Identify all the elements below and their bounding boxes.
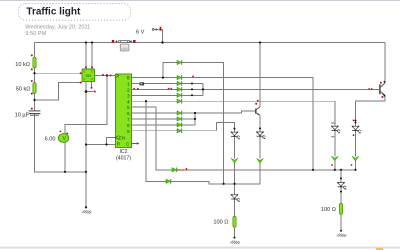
wire IC1 ground vertical: [85, 82, 87, 208]
svg-text:4: 4: [127, 99, 130, 104]
junction D6 merge: [194, 112, 196, 114]
LED L1 symbol (green chain): [256, 131, 265, 139]
bottom scrollbar strip: [0, 246, 400, 247]
wire merge bracket D3-D5: [202, 84, 204, 96]
junction node B (R2-C1): [33, 99, 35, 101]
wire merge bracket D6-D8: [194, 113, 196, 125]
junction LED L4 pin2: [355, 122, 357, 124]
junction meter to ground bus: [64, 171, 66, 173]
junction D5 out: [191, 94, 193, 96]
junction LED L1 pin: [259, 127, 261, 129]
junction pin0 branch: [162, 77, 164, 79]
wire D3 output: [182, 83, 203, 85]
diode D1: [177, 60, 182, 65]
junction D4 out: [191, 88, 193, 90]
svg-text:EN: EN: [119, 135, 126, 140]
wire Q2 collector drop: [259, 43, 261, 108]
wire branch pin0 to D1: [163, 63, 177, 78]
wire chain C2 lamp mid: [234, 199, 236, 216]
LED L2 arrow: [231, 158, 238, 163]
supply arrow 6V: [152, 27, 162, 31]
junction chain C4 upper bus: [354, 169, 356, 171]
scrollbar thumb: [376, 248, 383, 250]
junction D1 bus to lower bus: [223, 183, 225, 185]
junction rail IC1 pin8: [85, 41, 87, 43]
diode D8: [177, 123, 182, 128]
wire IC1 bottom pin stub: [91, 82, 93, 88]
wire D7 output: [182, 118, 195, 120]
wire IC2 R to ground vertical: [86, 144, 116, 146]
wire chain C3 top: [334, 101, 336, 126]
top window hairline: [0, 0, 400, 1]
wire chain C1 bottom: [259, 162, 261, 165]
junction LED L6 pin top: [340, 177, 342, 179]
wire chain C2 mid: [234, 137, 236, 159]
wire meter bottom: [64, 142, 66, 172]
wire rail left drop to R1: [34, 43, 36, 58]
diode D12: [177, 99, 182, 104]
LED L4 arrow: [352, 156, 359, 161]
svg-text:6 V: 6 V: [136, 30, 145, 36]
diode D10: [166, 179, 171, 184]
wire meter branch: [65, 76, 107, 135]
red C pin stub: [132, 142, 140, 144]
svg-text:(4017): (4017): [116, 155, 131, 161]
svg-text:0: 0: [127, 76, 130, 81]
svg-text:Traffic light: Traffic light: [26, 7, 81, 18]
wire cap to ground bus: [35, 114, 87, 172]
diode D4: [177, 87, 182, 92]
wire IC2 pin2 row to Q3 base: [132, 88, 380, 90]
svg-text:10 µF: 10 µF: [15, 113, 30, 119]
svg-text:10 kΩ: 10 kΩ: [15, 62, 30, 68]
wire chain C1 mid: [259, 136, 261, 158]
junction LED L2 pin: [234, 128, 236, 130]
wire R2 to node B: [34, 92, 36, 111]
LED L1 arrow: [257, 159, 264, 164]
red pin dots: [31, 40, 384, 170]
diode D11: [172, 168, 177, 173]
wire R1 to node A: [34, 68, 36, 83]
wire right lamp resistor to ground: [340, 214, 342, 230]
resistor R4 100 ohm right: [339, 203, 342, 214]
wire D2 output to right bus drop: [182, 78, 313, 170]
wire IC1 pin1 junction stub: [86, 91, 94, 93]
resistor R1 10k: [33, 57, 36, 68]
junction lamp drop upper bus: [340, 169, 342, 171]
junction pin4 branch: [145, 100, 147, 102]
wire right lamp drop: [340, 170, 342, 183]
junction EN-R tie: [105, 143, 107, 145]
wire node A to IC1 pin7: [35, 72, 83, 74]
title box (dotted): [19, 4, 131, 21]
diode D9: [177, 128, 182, 133]
wire IC2 pin3 row: [132, 94, 178, 96]
wire IC2 pin5 jog to diode D11: [132, 107, 173, 170]
svg-text:Wednesday, July 20, 2011: Wednesday, July 20, 2011: [25, 24, 90, 30]
junction ground lead: [85, 206, 87, 208]
ground G2 center: [230, 241, 240, 245]
junction R4 ground pin: [340, 230, 342, 232]
junction IC1 pin1: [85, 90, 88, 93]
junction D2 drop to upper bus: [312, 169, 314, 171]
junction R pin tie: [85, 143, 87, 145]
LED L3 symbol (yellow chain): [331, 126, 340, 134]
svg-text:IC2: IC2: [119, 149, 127, 155]
diode D2: [177, 75, 182, 80]
wire D6 output to Q2 base: [182, 111, 255, 113]
svg-text:9: 9: [127, 129, 130, 134]
ground G1 left: [82, 210, 92, 214]
LED L3 arrow: [331, 156, 338, 161]
wire IC2 pin6 row: [132, 112, 178, 114]
svg-text:100 Ω: 100 Ω: [321, 207, 336, 213]
wire node B jog to IC1 pin6: [35, 83, 83, 101]
wire top supply rail: [35, 42, 386, 44]
wire IC2 pin1 row: [132, 83, 178, 85]
junction rail 6V tap: [161, 41, 163, 43]
svg-text:100 Ω: 100 Ω: [213, 220, 228, 226]
transistor Q3: [380, 83, 385, 95]
svg-text:8: 8: [127, 123, 130, 128]
IC2 4017 body: [116, 74, 132, 148]
wire 6V tap: [162, 29, 164, 42]
svg-text:9:50 PM: 9:50 PM: [25, 31, 46, 37]
pin tick marks chain C3: [331, 123, 334, 137]
IC1 555 timer body: [82, 69, 95, 82]
wire IC2 pin8 row: [132, 124, 196, 126]
diode D7: [177, 117, 182, 122]
diode D5: [177, 93, 182, 98]
wire chain C3 bottom: [334, 161, 336, 170]
wire chain C4 mid: [355, 131, 357, 157]
wire D1 output vertical: [182, 63, 223, 184]
wire D9 staircase to chain C2 top: [216, 122, 234, 132]
wire Q3 emitter jog to chain C4: [356, 95, 386, 126]
transistor Q2: [256, 107, 260, 115]
wire IC2 pin0 row: [132, 77, 178, 79]
wire chain C2 resistor to ground: [234, 227, 236, 237]
wire Q2 emitter to green chain: [259, 115, 261, 132]
junction rail IC1 pin4: [91, 41, 93, 43]
junction Q3 collector pin: [384, 81, 386, 83]
junction D3 out: [191, 83, 193, 85]
voltmeter M1: [58, 134, 68, 143]
wire chain C2 into lower bus: [234, 163, 236, 195]
resistor R2 50k: [33, 83, 36, 94]
junction bracket mid: [202, 88, 204, 90]
diode D6: [177, 111, 182, 116]
LED L4 symbol (red chain): [352, 126, 361, 134]
wire D11 output red stub: [177, 169, 184, 171]
svg-text:6: 6: [127, 111, 130, 116]
switch S1 on rail: [116, 40, 132, 51]
LED L2 symbol (chain C2): [231, 132, 240, 140]
ground G3 right: [337, 234, 347, 238]
wire pin4 branch down to diode D10: [146, 101, 166, 181]
junction Q3 emitter pin: [384, 95, 386, 97]
svg-text:555: 555: [85, 74, 91, 78]
junction clock meter branch: [106, 74, 108, 76]
wire IC1 top pin right: [91, 43, 93, 70]
svg-text:6.00: 6.00: [45, 137, 56, 143]
wire IC1 output to IC2 CLK: [95, 75, 116, 77]
svg-text:R: R: [117, 142, 121, 147]
wire upper bus to right chains: [185, 169, 356, 171]
capacitor C1 plates: [29, 111, 41, 115]
svg-text:1: 1: [127, 82, 130, 87]
wire IC2 pin9 row: [132, 130, 217, 132]
wire IC2 EN tie: [107, 138, 116, 145]
junction chain C2 lower bus: [233, 183, 235, 185]
svg-text:V: V: [62, 136, 66, 142]
junction LED L4 pin top: [355, 120, 357, 122]
diode D3: [177, 81, 182, 86]
junction R3 ground pin: [234, 237, 236, 239]
IC2 pin number labels: [126, 76, 130, 147]
LED L6 symbol (right lamp): [337, 182, 346, 190]
junction lamp L6 pin: [340, 191, 342, 193]
LED L5 symbol (left lamp): [231, 194, 240, 202]
svg-text:2: 2: [127, 88, 130, 93]
wire D5 output: [182, 94, 203, 96]
junction node A (R1-R2): [33, 72, 35, 74]
junction D7 merge: [194, 118, 196, 120]
junction ground bus: [85, 171, 87, 173]
svg-text:3: 3: [127, 93, 130, 98]
junction rail Q2 collector: [259, 41, 261, 43]
junction chain C3 upper bus: [334, 169, 336, 171]
svg-text:50 kΩ: 50 kΩ: [16, 87, 31, 93]
net tag on pin1 row: [140, 82, 145, 85]
wire right lamp mid: [340, 187, 342, 204]
wire D10 output to lower bus: [171, 164, 260, 184]
resistor R3 100 ohm left: [233, 216, 236, 227]
wire IC2 pin4 long row to yellow chain: [132, 100, 335, 102]
wire IC1 top pin left: [85, 43, 87, 70]
wire chain C4 bottom: [355, 161, 357, 170]
svg-text:7: 7: [127, 117, 130, 122]
svg-text:5: 5: [127, 105, 130, 110]
wire chain C3 mid: [334, 131, 336, 157]
wire IC2 pin7 row: [132, 118, 178, 120]
wire rail right drop to Q3 collector: [384, 43, 386, 83]
